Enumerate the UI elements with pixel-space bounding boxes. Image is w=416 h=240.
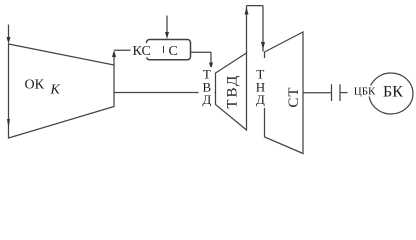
svg-text:Д: Д: [256, 92, 265, 107]
svg-text:СТ: СТ: [286, 86, 302, 107]
svg-text:ЦБК: ЦБК: [354, 85, 376, 97]
svg-text:ОК: ОК: [25, 78, 45, 93]
svg-text:ТВД: ТВД: [224, 74, 240, 109]
svg-text:С: С: [169, 44, 178, 59]
svg-text:КС: КС: [133, 44, 151, 59]
svg-text:Д: Д: [202, 92, 211, 107]
svg-text:К: К: [50, 83, 61, 98]
svg-text:БК: БК: [383, 84, 403, 101]
